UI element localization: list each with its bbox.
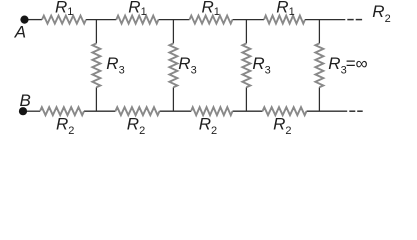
resistor R3 #3 bbox=[242, 43, 250, 87]
wire junction 2 bottom lead bbox=[172, 87, 174, 111]
resistor R3 #2 bbox=[169, 43, 177, 87]
svg-text:R3=∞: R3=∞ bbox=[328, 54, 367, 76]
wire R1b to R1c bbox=[159, 19, 190, 21]
node B bbox=[19, 107, 27, 115]
resistor R1 #4 bbox=[264, 16, 305, 24]
svg-text:R2: R2 bbox=[273, 115, 291, 137]
svg-text:R2: R2 bbox=[372, 2, 390, 25]
node A bbox=[20, 16, 28, 24]
wire junction 2 top lead bbox=[172, 20, 174, 44]
resistor R2 #1 bbox=[40, 107, 84, 115]
wire junction 3 top lead bbox=[245, 20, 247, 44]
wire junction 4 bottom lead bbox=[318, 87, 320, 111]
svg-text:R1: R1 bbox=[55, 0, 73, 18]
svg-text:R3: R3 bbox=[178, 54, 196, 76]
top-right continuation dashes bbox=[347, 19, 353, 21]
wire R2c to R2d bbox=[233, 110, 263, 112]
resistor R2 #3 bbox=[191, 107, 233, 115]
wire R2a to R2b bbox=[84, 110, 115, 112]
resistor R3 #4 bbox=[315, 43, 323, 87]
wire junction 3 bottom lead bbox=[245, 87, 247, 111]
wire B to R2a bbox=[27, 110, 40, 112]
svg-text:R2: R2 bbox=[199, 115, 217, 137]
wire A to R1a bbox=[29, 19, 43, 21]
svg-text:R1: R1 bbox=[202, 0, 220, 18]
resistor R2 #2 bbox=[115, 107, 159, 115]
svg-text:R2: R2 bbox=[127, 115, 145, 137]
wire R2b to R2c bbox=[160, 110, 192, 112]
resistor R1 #2 bbox=[116, 16, 158, 24]
svg-text:R1: R1 bbox=[276, 0, 294, 18]
wire R2d to bottom-right bbox=[307, 110, 348, 112]
svg-text:R2: R2 bbox=[56, 115, 74, 137]
resistor R3 #1 bbox=[92, 43, 100, 87]
wire junction 1 top lead bbox=[95, 20, 97, 44]
svg-text:A: A bbox=[14, 23, 26, 42]
bottom-right continuation dashes bbox=[349, 110, 355, 112]
wire R1a to R1b bbox=[86, 19, 116, 21]
svg-text:R1: R1 bbox=[128, 0, 146, 18]
wire junction 1 bottom lead bbox=[95, 87, 97, 111]
wire R1d to top-right bbox=[305, 19, 345, 21]
wire R1c to R1d bbox=[233, 19, 265, 21]
svg-text:B: B bbox=[20, 91, 31, 110]
resistor R2 #4 bbox=[263, 107, 307, 115]
wire junction 4 top lead bbox=[318, 20, 320, 44]
svg-text:R3: R3 bbox=[252, 54, 270, 76]
svg-text:R3: R3 bbox=[106, 54, 124, 76]
resistor R1 #1 bbox=[42, 16, 86, 24]
resistor R1 #3 bbox=[190, 16, 233, 24]
